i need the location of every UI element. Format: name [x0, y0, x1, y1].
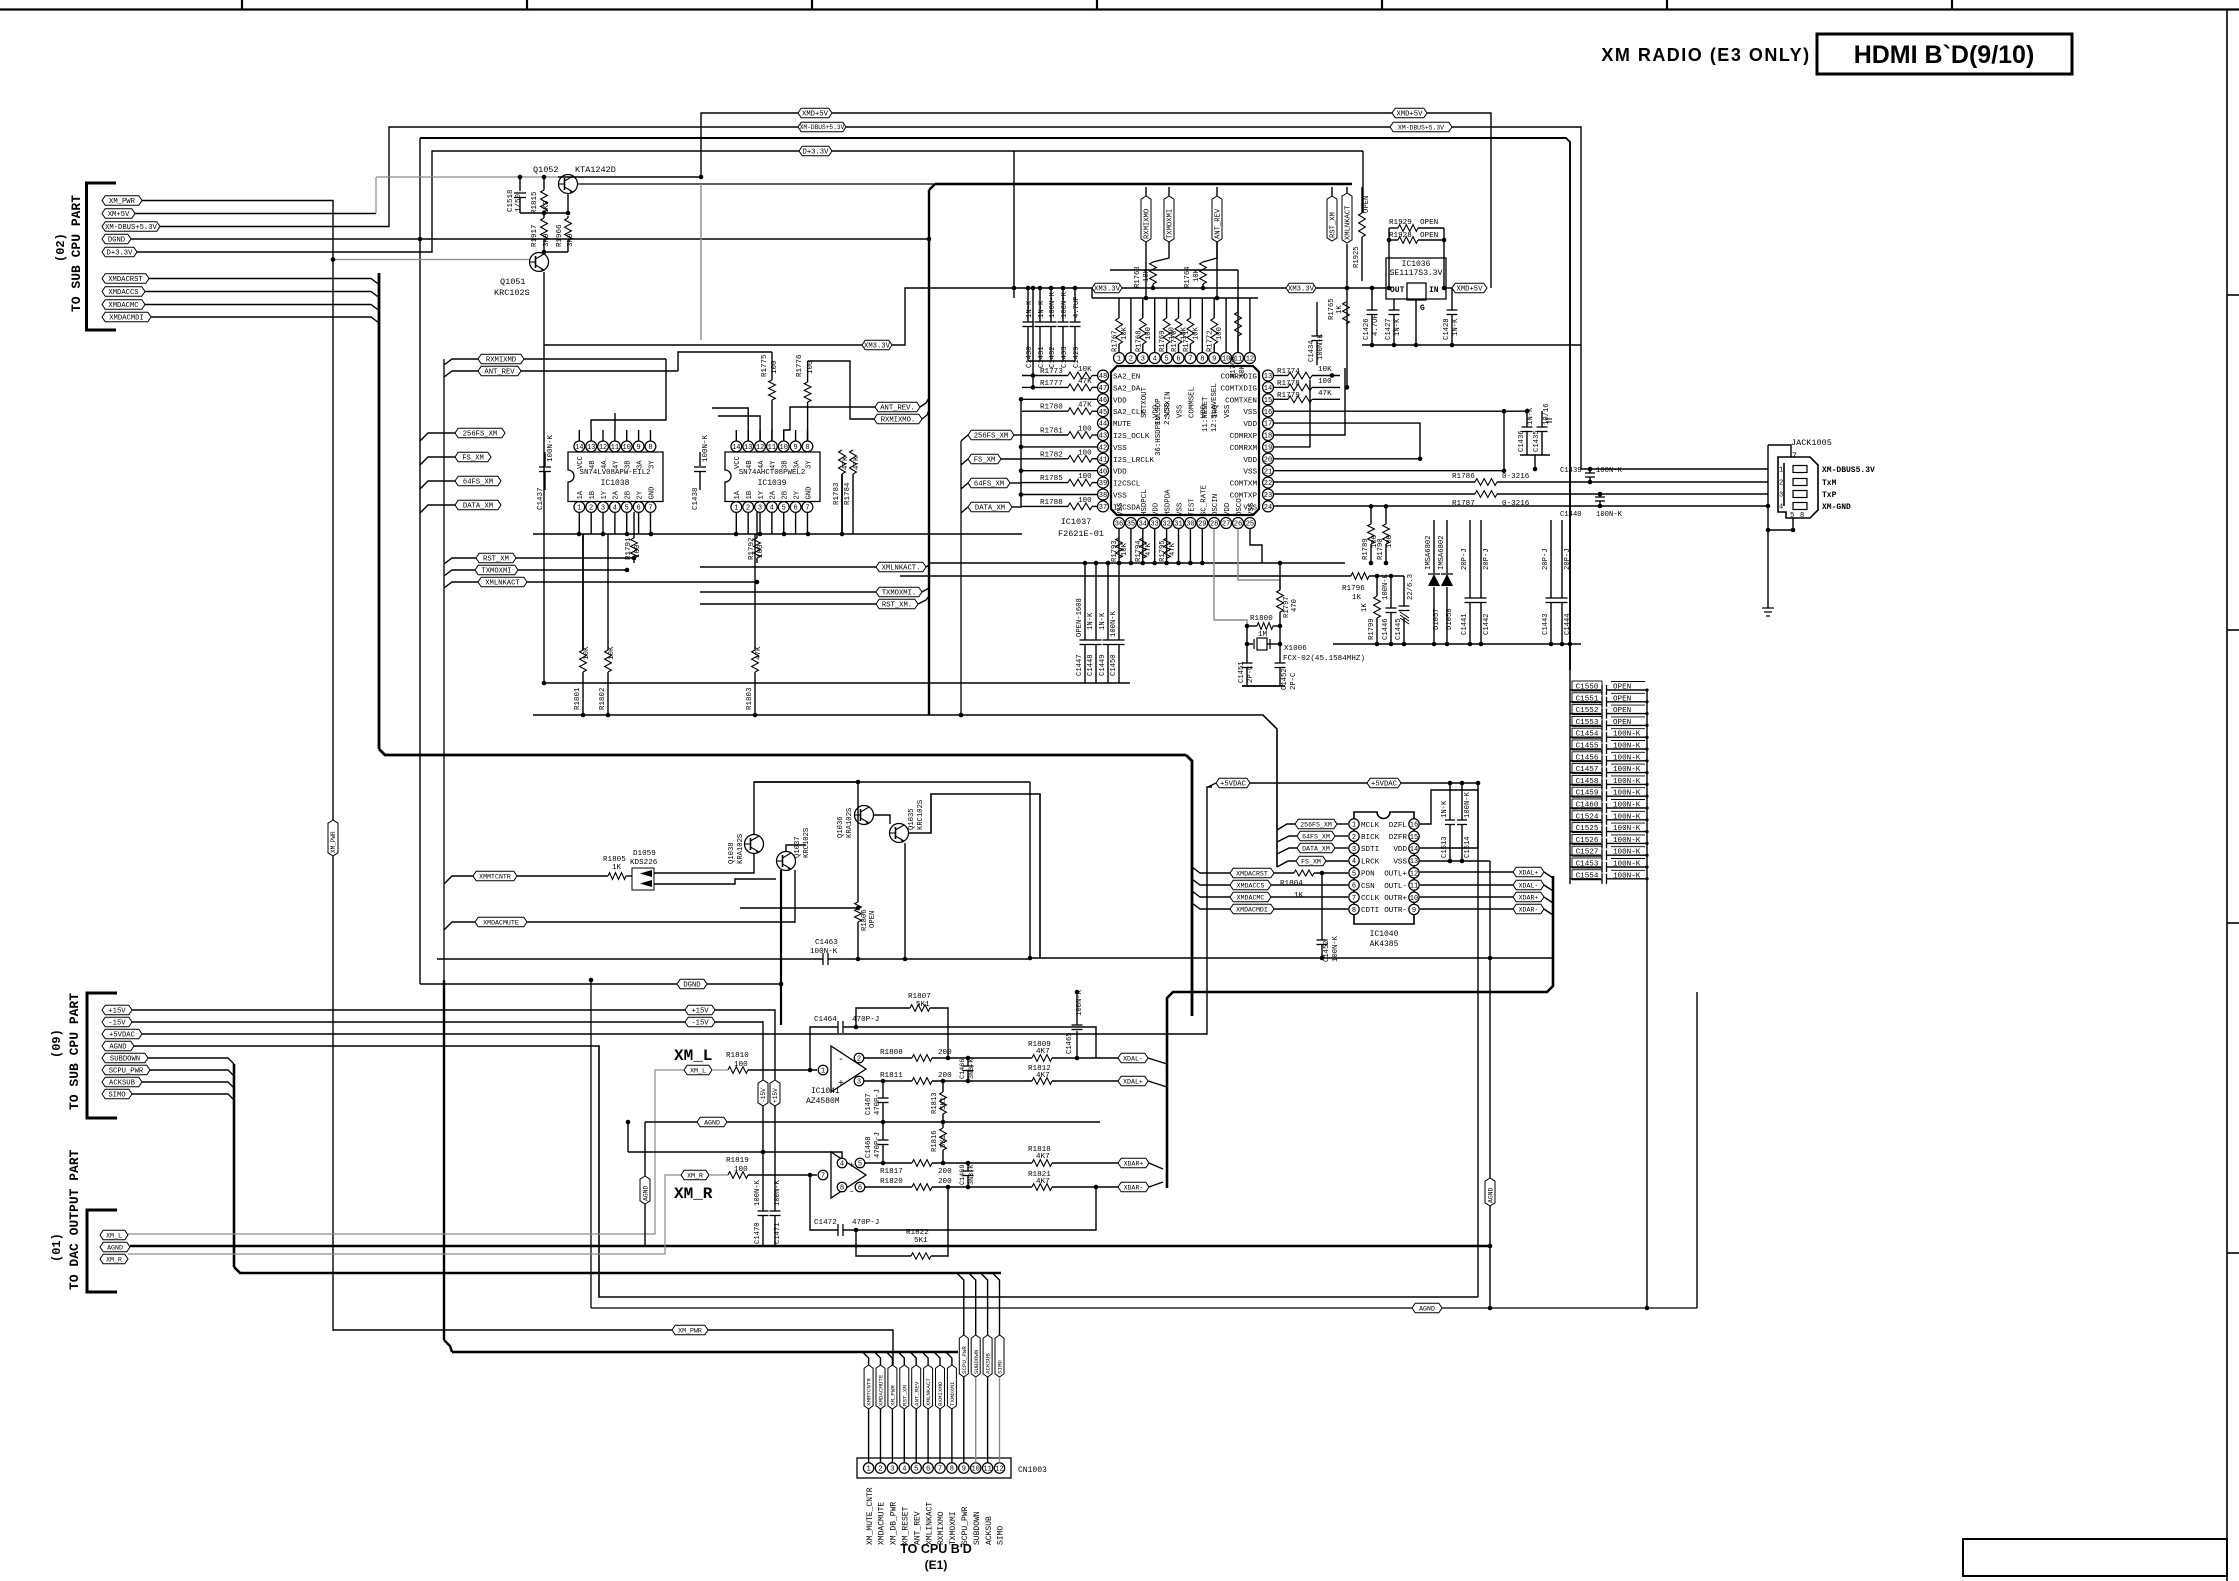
svg-text:4B: 4B [589, 460, 597, 469]
net label XDAR- [1513, 904, 1544, 914]
svg-text:100N-K: 100N-K [702, 434, 710, 462]
svg-text:ACKSUB: ACKSUB [985, 1353, 992, 1374]
svg-text:100N-K: 100N-K [1613, 790, 1641, 798]
net label RXMIXMD [478, 354, 524, 364]
net label +5VDAC (09) [102, 1029, 142, 1039]
wire base Q1036 row [740, 907, 858, 909]
IC1040 pin 1 MCLK [1349, 819, 1359, 829]
svg-text:4.7UF: 4.7UF [1372, 314, 1380, 336]
svg-text:KTA1242D: KTA1242D [575, 165, 616, 175]
svg-text:C1454: C1454 [1576, 731, 1599, 739]
IC1037 pin 2 [1125, 353, 1136, 364]
wire VSS down to AGND [1489, 861, 1491, 1309]
svg-text:AGND: AGND [642, 1185, 649, 1201]
net label DATA_XM left [455, 500, 501, 510]
svg-text:18: 18 [1264, 433, 1272, 441]
wire XM3.3V mid to rail [892, 288, 1014, 345]
IC1037 pin 32 [1161, 518, 1172, 529]
svg-text:1: 1 [1117, 356, 1121, 364]
resistor R1789 100 [1370, 506, 1372, 524]
page frame top border [0, 8, 2239, 10]
svg-text:37: 37 [1099, 504, 1107, 512]
svg-text:34: 34 [1139, 521, 1147, 529]
svg-text:100N-K: 100N-K [1613, 731, 1641, 739]
svg-text:1A: 1A [734, 490, 742, 499]
svg-text:2: 2 [1129, 356, 1133, 364]
svg-text:47K: 47K [755, 646, 763, 660]
svg-text:C1442: C1442 [1483, 613, 1491, 635]
svg-text:2Y: 2Y [793, 490, 801, 499]
svg-text:470: 470 [1291, 599, 1299, 612]
vertical net pill XMLNKACT at CN1003 [922, 1352, 928, 1365]
svg-text:4A: 4A [601, 460, 609, 469]
wire Q1051 collector down [543, 272, 545, 640]
wire riser from DGND [590, 980, 592, 1308]
svg-text:F2621E-01: F2621E-01 [1058, 529, 1104, 539]
bus XMDAC horizontal run to DAC [379, 749, 1186, 755]
net label +15V at opamp [685, 1005, 715, 1015]
svg-text:VSS: VSS [1117, 502, 1125, 516]
net label -15V at opamp [685, 1017, 715, 1027]
svg-text:44: 44 [1099, 421, 1107, 429]
IC1040 pin 16 DZFL [1409, 819, 1419, 829]
resistor R1815 3K9 [543, 177, 545, 190]
svg-text:R1793: R1793 [1111, 540, 1119, 562]
capacitor C1435 10/16 electrolytic [1541, 411, 1543, 427]
wire XM_R from (01) grey [128, 1175, 681, 1254]
svg-text:1: 1 [1779, 467, 1783, 475]
svg-text:C1460: C1460 [1576, 802, 1599, 810]
svg-text:2B: 2B [782, 490, 790, 499]
svg-text:C1450: C1450 [1110, 654, 1118, 676]
wire AGND from (09) thick [134, 1046, 1478, 1297]
IC1037 pin 35 [1125, 518, 1136, 529]
frame tick top 7 [1951, 0, 1953, 10]
svg-text:R1772: R1772 [1207, 330, 1215, 352]
svg-text:COMMSEL: COMMSEL [1188, 387, 1196, 418]
svg-text:SA2_CLK: SA2_CLK [1113, 409, 1145, 417]
wire Q1038 collector rail [754, 782, 858, 834]
wire XM_PWR from (02) to CN1003 [142, 201, 672, 1331]
IC1038 pin 4 [609, 502, 620, 513]
svg-text:XM-DBUS+5.3V: XM-DBUS+5.3V [1398, 124, 1444, 131]
svg-text:LRCK: LRCK [1361, 858, 1380, 866]
net label XM3.3V mid [862, 340, 892, 350]
svg-text:R1791: R1791 [625, 537, 633, 560]
IC1039 pin 4 [766, 502, 777, 513]
svg-text:1: 1 [1352, 822, 1356, 830]
net label DGND [677, 979, 707, 989]
resistor R1791 100 [633, 512, 635, 538]
wire COMTXM pin22 to jack TxM [1274, 481, 1475, 483]
svg-text:R1805: R1805 [603, 856, 626, 864]
wire opampB power taps [628, 1152, 842, 1158]
net label FS_XM at IC1037 [968, 454, 1001, 464]
wire diode to Q1038 [654, 854, 754, 873]
svg-text:9: 9 [793, 444, 797, 452]
svg-text:100N-K: 100N-K [1382, 573, 1390, 600]
resistor R1764 10K [1203, 242, 1217, 262]
svg-text:AGND: AGND [107, 1244, 123, 1251]
svg-text:RXMIXMO: RXMIXMO [937, 1381, 944, 1406]
IC1038 pin 8 [645, 441, 656, 452]
IC1037 pin 33 [1149, 518, 1160, 529]
vertical XMD+5V drop grey [700, 184, 702, 340]
capacitor C1513 1N-K [1449, 783, 1451, 820]
wire XMDACRST to DAC bus [149, 279, 379, 285]
svg-text:R1810: R1810 [726, 1052, 749, 1060]
svg-text:C1447: C1447 [1076, 654, 1084, 676]
svg-text:8: 8 [648, 444, 652, 452]
svg-text:AGND: AGND [1419, 1305, 1435, 1312]
svg-text:R1929: R1929 [1389, 219, 1412, 227]
decoupling capacitor bank left rail [1569, 670, 1571, 884]
wire XMDACMUTE to Q1037 [527, 870, 795, 922]
net label XDAL- [1513, 880, 1544, 890]
svg-text:XM-DBUS+5.3V: XM-DBUS+5.3V [800, 124, 845, 131]
svg-text:IC1037: IC1037 [1061, 517, 1092, 527]
capacitor C1428 1N-K [1451, 288, 1453, 310]
svg-text:6: 6 [636, 505, 640, 513]
net label XMDACRST at DAC [1230, 868, 1274, 878]
resistor R1763 10K [1153, 242, 1169, 262]
svg-text:R1770: R1770 [1171, 330, 1179, 352]
wire +5VDAC to caps [1401, 782, 1478, 784]
IC1037 pin 16 [1263, 406, 1274, 417]
IC1037 pin 4 [1149, 353, 1160, 364]
net label FS_XM left [455, 452, 491, 462]
svg-text:100: 100 [1078, 497, 1092, 505]
svg-text:4: 4 [1779, 504, 1783, 512]
wire Q1052 emitter down [567, 194, 569, 213]
capacitor C1514 100N-K [1461, 783, 1463, 820]
net label XM3.3V right of IC1037 [1286, 283, 1316, 293]
capacitor C1441 20P-J [1469, 520, 1471, 598]
svg-text:13: 13 [744, 444, 752, 452]
svg-text:100: 100 [1386, 535, 1394, 548]
bus CN signals corner to CN1003 [444, 1340, 452, 1352]
frame tick top 3 [811, 0, 813, 10]
svg-text:100N-K: 100N-K [547, 434, 555, 462]
CN1003 pin 9 [959, 1463, 969, 1473]
transistor Q1037 KRC102S [777, 852, 796, 871]
svg-text:KRC102S: KRC102S [494, 288, 530, 298]
svg-text:13: 13 [587, 444, 595, 452]
svg-text:C1553: C1553 [1576, 719, 1599, 727]
capacitor C1448 1N-K [1095, 563, 1097, 640]
svg-text:TxM: TxM [1822, 479, 1837, 488]
capacitor C1452 100N-K [1321, 873, 1323, 940]
IC1037 pin 8 [1197, 353, 1208, 364]
svg-text:100N-K: 100N-K [1613, 766, 1641, 774]
frame tick top 5 [1381, 0, 1383, 10]
svg-text:PON: PON [1361, 871, 1375, 879]
svg-text:HSDPCL: HSDPCL [1141, 489, 1149, 516]
vertical net pill RST_XM at CN1003 [898, 1352, 904, 1365]
svg-text:VSS: VSS [1243, 469, 1257, 477]
diode D1057 IMSA6802 [1433, 520, 1435, 573]
svg-text:IC1040: IC1040 [1370, 930, 1399, 939]
svg-text:G: G [1420, 304, 1425, 313]
svg-text:X1006: X1006 [1284, 645, 1307, 653]
svg-text:XM-GND: XM-GND [1822, 503, 1851, 512]
connector bracket TO DAC OUTPUT PART (01) [87, 1210, 117, 1292]
svg-text:4K7: 4K7 [1036, 1153, 1050, 1161]
IC1037 pin 39 [1098, 477, 1109, 488]
net label XMD+5V right [1392, 108, 1427, 118]
svg-text:C1429: C1429 [1073, 346, 1081, 368]
svg-text:HSDPDA: HSDPDA [1165, 489, 1173, 516]
svg-text:0-3216: 0-3216 [1502, 473, 1530, 481]
JACK1005 pin 1 XM-DBUS5.3V [1793, 466, 1807, 473]
resistor R1805 1K [517, 875, 608, 877]
resistor R1803 47K [754, 534, 756, 650]
svg-text:COMTXM: COMTXM [1230, 481, 1258, 489]
svg-text:XM RADIO (E3 ONLY): XM RADIO (E3 ONLY) [1601, 45, 1810, 65]
net label XMLNKACT left [478, 577, 527, 587]
net label D+3.3V (02) [102, 247, 137, 257]
capacitor C1526 100N-K [1570, 842, 1601, 844]
IC1037 pin 36 [1114, 518, 1125, 529]
svg-text:R1773: R1773 [1040, 368, 1063, 376]
wire DGND [420, 983, 677, 985]
svg-text:RST_XM: RST_XM [901, 1385, 908, 1406]
svg-text:R1781: R1781 [1040, 428, 1063, 436]
IC1040 pin 8 CDTI [1349, 904, 1359, 914]
wire XMD+5V corner [701, 113, 798, 177]
wire XM_L from (01) grey [128, 1070, 684, 1234]
svg-text:SUBDOWN: SUBDOWN [973, 1349, 980, 1374]
wire AGND stub down [644, 1122, 646, 1246]
net label +5VDAC left [1216, 778, 1250, 788]
svg-text:VDD: VDD [1113, 469, 1127, 477]
svg-text:11:RESET: 11:RESET [1202, 396, 1210, 432]
svg-text:11: 11 [1410, 883, 1418, 891]
net label ANT_REV right [875, 402, 920, 412]
svg-text:XMD+5V: XMD+5V [1457, 286, 1484, 294]
IC1039 pin 8 [802, 441, 813, 452]
IC1037 pin 20 [1263, 453, 1274, 464]
svg-text:20P-J: 20P-J [1461, 548, 1469, 570]
svg-text:3A: 3A [793, 460, 801, 469]
wire pin20 row [1274, 458, 1420, 460]
svg-text:10/16: 10/16 [1543, 403, 1551, 425]
vertical net pill SIMO at CN1003 [995, 1335, 1004, 1377]
svg-text:+5VDAC: +5VDAC [1220, 781, 1247, 789]
svg-text:100: 100 [1145, 327, 1153, 340]
CN1003 pin 12 [994, 1463, 1004, 1473]
svg-text:C1463: C1463 [815, 939, 838, 947]
wire Q1037 emitter down thick [780, 870, 782, 1025]
svg-text:41: 41 [1099, 456, 1107, 464]
capacitor C1431 1N-K [1039, 288, 1041, 322]
resistor R1783 47K [839, 450, 846, 474]
svg-text:2P-C: 2P-C [1247, 665, 1255, 683]
svg-text:OPEN: OPEN [1613, 719, 1631, 727]
transistor Q1052 KTA1242D [559, 175, 578, 194]
resistor R1799 1K [1376, 576, 1378, 596]
svg-text:CDTI: CDTI [1361, 907, 1379, 915]
svg-text:100N-K: 100N-K [1613, 872, 1641, 880]
CN1003 pin 8 [947, 1463, 957, 1473]
wire jack ground down to earth [1767, 530, 1769, 608]
svg-text:C1550: C1550 [1576, 684, 1599, 692]
net label XMDACMDI (02) [102, 312, 151, 322]
wire base rail Q1052 [376, 176, 558, 178]
svg-text:XMMTCNTR: XMMTCNTR [479, 873, 511, 880]
svg-text:IMSA6802: IMSA6802 [1425, 535, 1433, 570]
svg-text:5K1: 5K1 [940, 1135, 948, 1148]
svg-text:2:VSS: 2:VSS [1164, 402, 1172, 425]
svg-text:MUTE: MUTE [1113, 421, 1132, 429]
svg-text:4Y: 4Y [770, 460, 778, 469]
svg-text:COMRXM: COMRXM [1230, 445, 1258, 453]
svg-text:C1455: C1455 [1576, 743, 1599, 751]
svg-text:47K: 47K [1318, 390, 1332, 398]
svg-text:100: 100 [734, 1061, 748, 1069]
resistor R1771 10K [1186, 318, 1194, 344]
vertical net pill TXMOXMI top [1164, 196, 1174, 242]
svg-text:TXMOXMI: TXMOXMI [949, 1511, 958, 1545]
IC1039 pin 12 [755, 441, 766, 452]
net label XMD+5V top [798, 108, 832, 118]
svg-text:100N-K: 100N-K [1613, 754, 1641, 762]
net label RXMIXMO right [874, 414, 922, 424]
net label SIMO (09) [102, 1089, 132, 1099]
svg-text:1N-K: 1N-K [1038, 300, 1046, 318]
svg-text:30: 30 [1186, 521, 1194, 529]
svg-text:7: 7 [938, 1466, 942, 1474]
net label AGND lower [1412, 1303, 1442, 1313]
svg-text:R1782: R1782 [1040, 451, 1063, 459]
svg-text:C1525: C1525 [1576, 825, 1599, 833]
svg-text:10K: 10K [1318, 366, 1332, 374]
svg-text:11: 11 [768, 444, 776, 452]
svg-text:VDD: VDD [1393, 846, 1407, 854]
IC1037 pin 3 [1137, 353, 1148, 364]
svg-text:XM_R: XM_R [674, 1185, 713, 1203]
svg-text:2: 2 [1352, 834, 1356, 842]
IC IC1039 SN74AHCT08PWEL2 [725, 452, 820, 502]
svg-text:R1966: R1966 [556, 224, 564, 247]
svg-text:KRA102S: KRA102S [846, 808, 854, 838]
svg-text:3Y: 3Y [648, 460, 656, 469]
transistor Q1035 KRC102S [890, 824, 909, 843]
svg-text:8: 8 [840, 1185, 844, 1193]
svg-text:C1449: C1449 [1099, 654, 1107, 676]
net label +5VDAC right [1367, 778, 1401, 788]
IC1039 pin 14 [731, 441, 742, 452]
resistor R1808 200 [864, 1057, 912, 1059]
resistor R1928 OPEN [1389, 239, 1398, 241]
vertical net pill ACKSUB at CN1003 [983, 1335, 992, 1377]
resistor R1793 10K [1116, 538, 1123, 558]
svg-text:C1428: C1428 [1443, 318, 1451, 340]
IC1040 AK4385 body [1354, 812, 1414, 924]
wire pin21 row [1274, 470, 1504, 472]
svg-text:SN74AHCT08PWEL2: SN74AHCT08PWEL2 [739, 469, 806, 477]
svg-text:VDD: VDD [1224, 502, 1232, 516]
capacitor C1434 100N-K [1316, 302, 1318, 336]
svg-text:3B: 3B [782, 460, 790, 469]
svg-text:XMLNKACT: XMLNKACT [485, 580, 520, 588]
svg-text:4: 4 [613, 505, 617, 513]
wire XM+5V from (02) to Q1052 base rail [135, 213, 376, 215]
IC1037 pin 10 [1221, 353, 1232, 364]
svg-text:470P-J: 470P-J [874, 1089, 882, 1115]
svg-text:IC1041: IC1041 [811, 1087, 840, 1096]
svg-text:4K7: 4K7 [1036, 1048, 1050, 1056]
svg-text:OPEN: OPEN [1613, 707, 1631, 715]
svg-text:6: 6 [1176, 356, 1180, 364]
svg-text:2A: 2A [770, 490, 778, 499]
svg-text:D1059: D1059 [633, 850, 656, 858]
wire D+3.3V rail [832, 150, 1363, 152]
svg-text:256FS_XM: 256FS_XM [463, 431, 498, 439]
svg-text:C1456: C1456 [1576, 754, 1599, 762]
capacitor C1450 100N-K [1118, 563, 1120, 640]
svg-text:XM3.3V: XM3.3V [1094, 286, 1121, 294]
wire COMTXP pin23 to jack TxP [1274, 493, 1475, 495]
decoupling capacitor bank right rail [1646, 690, 1648, 1309]
svg-text:100N-K: 100N-K [810, 948, 838, 956]
svg-text:R1766: R1766 [1230, 356, 1238, 378]
svg-text:R1789: R1789 [1362, 538, 1370, 560]
svg-text:470P-J: 470P-J [874, 1132, 882, 1158]
net label XDAL+ at opamp [1118, 1076, 1148, 1086]
svg-text:FS_XM: FS_XM [1301, 858, 1321, 865]
IC1039 pin 9 [790, 441, 801, 452]
wire RXMIXMD to IC1038 input [591, 359, 666, 430]
CN1003 pin 2 [875, 1463, 885, 1473]
svg-text:20P-J: 20P-J [1483, 548, 1491, 570]
capacitor C1436 1N-K [1526, 411, 1528, 427]
net label 64FS_XM at IC1037 [968, 478, 1010, 488]
resistor R1812 4K7 [1032, 1078, 1052, 1085]
svg-text:C1453: C1453 [1576, 861, 1599, 869]
capacitor C1458 100N-K [1570, 783, 1601, 785]
svg-text:100N-K: 100N-K [754, 1179, 762, 1206]
svg-text:-15V: -15V [108, 1020, 126, 1028]
op-amp IC1041 A [831, 1046, 866, 1092]
svg-text:1K: 1K [1294, 892, 1304, 900]
wire Q1052 collector right [578, 183, 935, 185]
svg-text:42: 42 [1099, 445, 1107, 453]
wire regulator G to ground rail [1415, 300, 1417, 345]
net label 256FS_XM at IC1037 [968, 430, 1014, 440]
net label FS_XM at DAC [1296, 856, 1326, 866]
svg-text:R1776: R1776 [796, 354, 804, 377]
svg-text:100N-K: 100N-K [1613, 861, 1641, 869]
capacitor C1471 100N-K [774, 1106, 776, 1211]
IC1037 pin 47 [1098, 382, 1109, 393]
net label XDAR- at opamp [1118, 1182, 1149, 1192]
svg-text:KDS226: KDS226 [630, 859, 658, 867]
svg-text:AGND: AGND [704, 1119, 720, 1126]
sheet title box HDMI B`D(9/10) [1817, 34, 2072, 74]
resistor R1917 3K9 [543, 216, 545, 218]
svg-text:1: 1 [866, 1466, 870, 1474]
svg-text:COMTXDIG: COMTXDIG [1221, 385, 1258, 393]
net label D+3.3V top [799, 146, 832, 156]
svg-text:C1457: C1457 [1576, 766, 1599, 774]
resistor R1792 100 [756, 512, 758, 538]
net label XMMTCNTR [473, 871, 517, 881]
svg-text:1: 1 [734, 505, 738, 513]
svg-text:DGND: DGND [108, 237, 125, 245]
svg-text:28: 28 [1210, 521, 1218, 529]
JACK1005 pin 3 TxP [1793, 491, 1807, 498]
